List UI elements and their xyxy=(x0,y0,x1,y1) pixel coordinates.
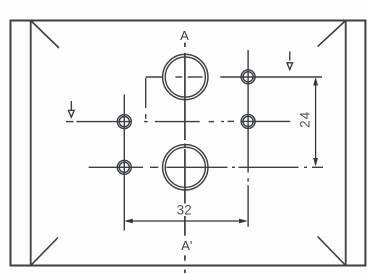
svg-text:24: 24 xyxy=(297,111,312,128)
svg-text:32: 32 xyxy=(177,203,192,218)
svg-text:A': A' xyxy=(181,238,192,253)
svg-text:A: A xyxy=(180,28,189,43)
